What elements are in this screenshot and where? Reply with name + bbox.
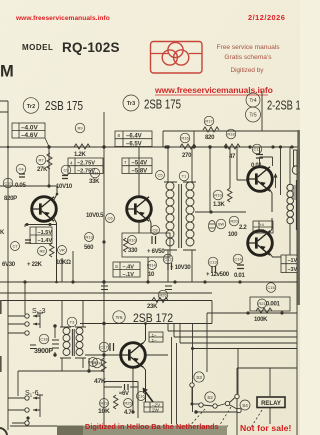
svg-text:–6.5V: –6.5V	[126, 141, 142, 147]
svg-text:M: M	[0, 63, 14, 81]
svg-text:S3: S3	[196, 375, 202, 380]
svg-text:S2: S2	[207, 395, 213, 400]
svg-text:C4: C4	[18, 167, 24, 172]
svg-text:47: 47	[229, 154, 236, 160]
svg-text:8: 8	[118, 133, 121, 138]
svg-text:2-2SB 175: 2-2SB 175	[267, 99, 300, 113]
svg-text:R9: R9	[77, 126, 83, 131]
svg-text:±–: ±–	[152, 338, 158, 343]
svg-text:3900P: 3900P	[34, 348, 53, 355]
svg-text:R19: R19	[214, 193, 222, 198]
svg-text:www.freeservicemanuals.info: www.freeservicemanuals.info	[15, 15, 110, 22]
svg-text:+ 10V30: + 10V30	[170, 265, 191, 271]
svg-text:C16: C16	[137, 394, 145, 399]
svg-text:0.01: 0.01	[234, 273, 245, 279]
svg-text:C9: C9	[63, 168, 69, 173]
svg-text:R8: R8	[39, 249, 45, 254]
svg-text:2SB 175: 2SB 175	[144, 98, 181, 112]
svg-text:33K: 33K	[89, 179, 100, 185]
svg-text:0.05: 0.05	[15, 183, 26, 189]
svg-text:–5.4V: –5.4V	[132, 161, 148, 167]
svg-text:2SB 172: 2SB 172	[133, 311, 173, 325]
svg-text:0.01: 0.01	[251, 163, 262, 169]
svg-text:Tr4: Tr4	[249, 98, 257, 104]
svg-text:1.3K: 1.3K	[213, 202, 225, 208]
svg-text:R7: R7	[38, 158, 44, 163]
svg-text:2/12/2026: 2/12/2026	[248, 13, 285, 22]
svg-text:2W: 2W	[152, 408, 160, 413]
svg-text:560: 560	[84, 245, 94, 251]
svg-text:C18: C18	[40, 337, 48, 342]
svg-text:C8: C8	[152, 228, 158, 233]
svg-text:–1.4V: –1.4V	[38, 238, 53, 244]
svg-text:C11: C11	[253, 147, 261, 152]
svg-text:C12: C12	[164, 257, 172, 262]
svg-text:Free service manuals: Free service manuals	[216, 44, 280, 51]
svg-text:820P: 820P	[4, 196, 17, 202]
svg-text:23K: 23K	[147, 304, 158, 310]
svg-text:RELAY: RELAY	[261, 401, 281, 407]
svg-text:2SB 175: 2SB 175	[45, 99, 83, 113]
svg-text:R14: R14	[148, 263, 156, 268]
svg-text:≈6V: ≈6V	[119, 391, 129, 397]
svg-text:S4: S4	[242, 403, 248, 408]
svg-text:C17: C17	[100, 345, 108, 350]
svg-text:VR: VR	[59, 248, 65, 253]
svg-text:Not for sale!: Not for sale!	[240, 423, 291, 433]
svg-text:R23: R23	[100, 401, 108, 406]
svg-text:S1-3: S1-3	[32, 308, 46, 316]
svg-text:330: 330	[128, 248, 138, 254]
svg-text:+ 12v500: + 12v500	[206, 272, 230, 278]
svg-text:10V10: 10V10	[56, 184, 73, 190]
svg-text:T3: T3	[70, 320, 75, 325]
svg-text:–4.0V: –4.0V	[21, 125, 38, 132]
svg-text:C6: C6	[107, 216, 113, 221]
svg-text:7: 7	[124, 160, 127, 165]
svg-text:Digitized by: Digitized by	[230, 67, 264, 74]
svg-text:+ 22K: + 22K	[27, 262, 43, 268]
svg-text:10KΩ: 10KΩ	[56, 260, 71, 266]
svg-text:–4.6V: –4.6V	[21, 132, 38, 139]
svg-text:–3V: –3V	[288, 267, 298, 273]
svg-text:0.001: 0.001	[266, 302, 280, 308]
svg-text:–5.8V: –5.8V	[132, 168, 148, 174]
svg-text:Tr4: Tr4	[258, 222, 265, 227]
svg-text:R25: R25	[124, 401, 132, 406]
svg-text:Gratis schema’s: Gratis schema’s	[224, 54, 272, 61]
svg-text:C7: C7	[12, 244, 18, 249]
svg-text:T1: T1	[182, 174, 187, 179]
svg-text:R10: R10	[128, 238, 136, 243]
svg-text:C10: C10	[4, 181, 12, 186]
svg-text:MODEL: MODEL	[22, 43, 53, 52]
svg-text:100K: 100K	[254, 317, 268, 323]
svg-text:Tr5: Tr5	[249, 113, 257, 119]
svg-text:R22: R22	[89, 360, 97, 365]
svg-text:C15: C15	[267, 285, 275, 290]
svg-text:Tr3: Tr3	[127, 101, 135, 107]
svg-text:–6.4V: –6.4V	[126, 134, 142, 140]
svg-text:1.2K: 1.2K	[74, 152, 86, 158]
svg-text:RQ-102S: RQ-102S	[62, 40, 120, 55]
svg-text:Tr2: Tr2	[27, 104, 35, 110]
svg-text:10: 10	[148, 272, 155, 278]
svg-text:Tr6: Tr6	[115, 315, 122, 321]
svg-text:Digitized in Helloo Ba the Net: Digitized in Helloo Ba the Netherlands	[85, 422, 219, 431]
svg-text:R17: R17	[205, 119, 213, 124]
svg-text:4: 4	[70, 161, 73, 166]
svg-text:C13: C13	[209, 260, 217, 265]
svg-text:–1.5V: –1.5V	[38, 230, 53, 236]
svg-text:R18: R18	[227, 132, 235, 137]
svg-text:SW: SW	[218, 222, 225, 227]
svg-text:R13: R13	[85, 235, 93, 240]
svg-text:3x3: 3x3	[258, 228, 265, 233]
svg-text:C5: C5	[157, 173, 163, 178]
svg-text:R16: R16	[181, 136, 189, 141]
svg-text:2.2: 2.2	[239, 225, 247, 231]
svg-text:R26: R26	[159, 293, 167, 298]
svg-text:–.1V: –.1V	[123, 272, 135, 278]
svg-text:27K: 27K	[37, 167, 48, 173]
svg-text:100: 100	[228, 232, 238, 238]
svg-text:–.4V: –.4V	[123, 264, 135, 270]
svg-text:–1V: –1V	[288, 258, 298, 264]
svg-text:R20: R20	[230, 219, 238, 224]
svg-text:10K: 10K	[98, 408, 110, 415]
svg-text:47K: 47K	[94, 378, 106, 385]
svg-text:C14: C14	[234, 257, 242, 262]
svg-text:S: S	[115, 264, 118, 269]
svg-text:R11: R11	[91, 171, 99, 176]
svg-text:820: 820	[205, 135, 215, 141]
svg-text:4.7: 4.7	[124, 410, 132, 416]
svg-text:+ 6V50: + 6V50	[147, 249, 165, 255]
svg-text:270: 270	[182, 153, 192, 159]
svg-text:–2.75V: –2.75V	[77, 161, 95, 167]
svg-text:6V30: 6V30	[2, 262, 16, 268]
svg-text:10V0.5: 10V0.5	[86, 213, 104, 219]
